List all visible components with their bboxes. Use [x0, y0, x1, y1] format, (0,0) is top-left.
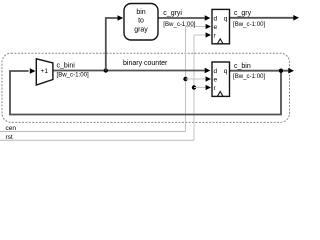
wire c_gry output	[230, 17, 294, 19]
U2 clock triangle	[218, 92, 223, 97]
arrow c_bin module output	[288, 68, 294, 74]
junction dot cen	[183, 77, 187, 81]
svg-text:[Bw_c-1:00]: [Bw_c-1:00]	[163, 21, 195, 28]
svg-text:e: e	[214, 76, 218, 83]
svg-text:c_bini: c_bini	[57, 63, 76, 70]
wire cen vertical	[185, 27, 187, 132]
arrow c_gry output	[293, 15, 299, 21]
svg-text:to: to	[138, 18, 144, 25]
flip-flop U1 box	[212, 9, 230, 43]
svg-text:c_bin: c_bin	[234, 63, 251, 70]
wire rst vertical	[193, 35, 195, 140]
svg-text:c_gryi: c_gryi	[163, 10, 182, 17]
wire c_bin output	[230, 70, 289, 72]
svg-text:gray: gray	[134, 27, 148, 34]
wire c_bini from incrementer to U2 d	[53, 70, 205, 72]
svg-text:e: e	[214, 24, 218, 31]
wire rst to U1 r pin	[194, 34, 206, 36]
arrow into incrementer input	[30, 68, 36, 74]
U1 clock triangle	[218, 39, 223, 44]
junction dot c_bin	[279, 69, 283, 73]
svg-text:[Bw_c-1:00]: [Bw_c-1:00]	[233, 21, 265, 28]
junction dot rst	[192, 85, 196, 89]
svg-text:[Bw_c-1:00]: [Bw_c-1:00]	[57, 71, 89, 78]
svg-text:binary counter: binary counter	[123, 60, 168, 67]
arrow into U2 d	[205, 68, 211, 74]
svg-text:d: d	[214, 15, 218, 22]
wire c_gryi from bin2gray to U1 d	[158, 17, 205, 19]
arrow into U1 d	[205, 15, 211, 21]
svg-text:cen: cen	[6, 125, 17, 132]
svg-text:+1: +1	[41, 68, 49, 75]
incrementer +1	[36, 59, 53, 85]
svg-text:[Bw_c-1:00]: [Bw_c-1:00]	[233, 73, 265, 80]
bin to gray converter box	[124, 4, 158, 41]
wire cen to U2 e pin	[186, 78, 207, 80]
arrow into U2 e	[206, 76, 211, 81]
arrow into U1 e	[206, 24, 211, 29]
wire cen horizontal	[0, 131, 186, 133]
svg-text:c_gry: c_gry	[234, 10, 252, 17]
wire rst horizontal	[0, 139, 194, 141]
module boundary: binary counter dashed box	[2, 53, 290, 122]
arrow into bin2gray input	[118, 15, 124, 21]
arrow into U1 r	[206, 32, 211, 37]
arrow into U2 r	[206, 85, 211, 90]
flip-flop U2 box	[212, 62, 230, 96]
wire c_bini vertical to bin2gray	[106, 18, 118, 71]
wire c_bin feedback loop	[10, 71, 281, 115]
junction dot c_bini	[104, 68, 108, 72]
svg-text:q: q	[224, 68, 228, 75]
wire rst to U2 r pin	[194, 87, 206, 89]
svg-text:q: q	[224, 15, 228, 22]
svg-text:bin: bin	[136, 9, 145, 16]
svg-text:d: d	[214, 68, 218, 75]
svg-text:rst: rst	[6, 134, 13, 141]
wire cen to U1 e pin	[186, 26, 207, 28]
